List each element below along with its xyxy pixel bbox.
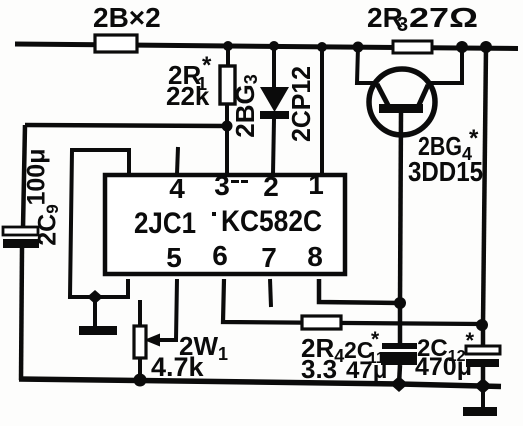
svg-text:5: 5: [166, 242, 182, 273]
svg-text:4: 4: [169, 173, 185, 204]
svg-text:8: 8: [307, 241, 323, 272]
svg-text:*: *: [469, 125, 479, 152]
svg-text:1: 1: [308, 169, 324, 200]
svg-text:27Ω: 27Ω: [409, 2, 478, 33]
svg-text:2JC1: 2JC1: [134, 207, 196, 240]
svg-text:2CP12: 2CP12: [286, 66, 316, 142]
svg-text:6: 6: [212, 240, 228, 271]
svg-text:3: 3: [397, 14, 408, 36]
svg-text:3.3: 3.3: [301, 354, 337, 384]
svg-text:22k: 22k: [166, 81, 210, 111]
svg-text:4.7k: 4.7k: [151, 352, 205, 382]
svg-text:KC582C: KC582C: [221, 205, 322, 238]
svg-text:*: *: [371, 328, 380, 351]
svg-text:3DD15: 3DD15: [408, 156, 483, 187]
svg-text:*: *: [202, 52, 212, 79]
svg-text:2B×2: 2B×2: [93, 2, 161, 33]
svg-text:100μ: 100μ: [23, 148, 51, 205]
svg-text:47μ: 47μ: [346, 357, 387, 384]
svg-text:7: 7: [261, 242, 277, 273]
svg-text:3: 3: [214, 170, 230, 201]
svg-text:470μ: 470μ: [415, 353, 472, 381]
svg-text:2: 2: [263, 171, 279, 202]
